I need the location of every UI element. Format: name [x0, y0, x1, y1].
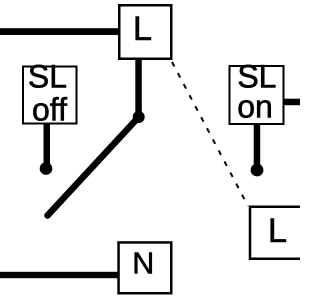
svg-text:N: N	[132, 247, 154, 281]
svg-text:on: on	[237, 89, 273, 125]
wire: from SL on box right side to right edge	[285, 99, 301, 106]
switch lever S1 (shown in off position)	[48, 117, 139, 216]
terminal box N	[119, 242, 172, 293]
terminal box SL off	[23, 67, 77, 124]
wire: L supply feed from left edge into terminal box L1	[0, 28, 119, 35]
svg-text:off: off	[32, 92, 67, 128]
terminal box SL on	[230, 66, 284, 124]
svg-text:SL: SL	[28, 59, 67, 95]
node: SL on contact dot	[251, 164, 264, 177]
wire: from terminal box L1 down to switch common node	[135, 58, 142, 117]
svg-text:L: L	[268, 212, 287, 250]
node: switch common junction dot	[133, 111, 145, 123]
wire: from SL on box down to on contact	[254, 125, 261, 165]
wire: from SL off box down to off contact	[44, 124, 51, 164]
svg-text:L: L	[133, 10, 152, 48]
terminal box L2	[250, 207, 303, 259]
terminal box L1	[119, 5, 171, 59]
dashed wire: alternate lever path from L1 to terminal box L2	[172, 62, 248, 206]
node: SL off contact dot	[40, 162, 53, 175]
wire: neutral feed from left edge into terminal box N	[0, 272, 118, 278]
